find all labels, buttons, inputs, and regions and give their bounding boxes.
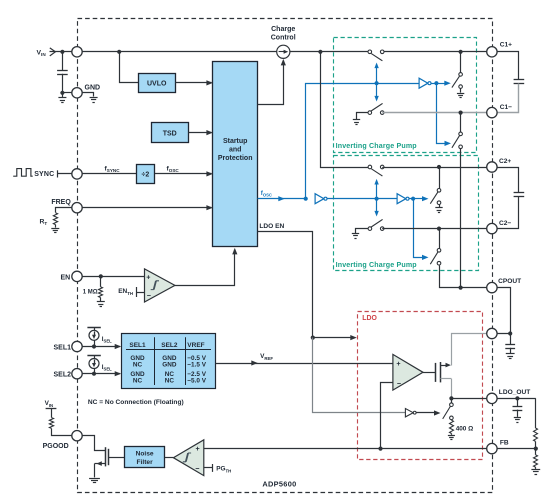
inverting charge pump 2 label [336, 261, 418, 269]
table rows [130, 355, 206, 385]
pin CPOUT [487, 282, 497, 292]
wire pump1 to driver blue [377, 83, 420, 85]
ground LDO_OUT cap [514, 410, 521, 423]
PGTH tick and stub [204, 464, 213, 472]
svg-text:Inverting Charge Pump: Inverting Charge Pump [336, 261, 418, 269]
charge control label [271, 26, 296, 42]
svg-text:C1−: C1− [500, 104, 512, 111]
svg-text:CPOUT: CPOUT [498, 278, 521, 285]
svg-text:C2+: C2+ [499, 158, 511, 165]
wire pump2 to driver2 blue [377, 198, 398, 200]
wire GND pin stub [62, 92, 77, 94]
svg-text:EN: EN [60, 274, 70, 281]
wire VREF to op-amp [216, 360, 393, 365]
ground pump1 C1+ switch [457, 88, 464, 97]
switch pump2 top [368, 165, 384, 176]
wire LDO EN [258, 232, 313, 338]
wire to UVLO [120, 52, 139, 83]
node SEL2 junction [92, 372, 96, 376]
block noise filter [125, 447, 165, 468]
capacitor CVIN [57, 71, 68, 75]
SEL2 label [53, 372, 71, 379]
svg-text:LDO EN: LDO EN [259, 223, 284, 230]
svg-text:SYNC: SYNC [34, 171, 54, 178]
ground below RT [51, 225, 59, 233]
pin GND [72, 88, 82, 98]
node fOSC junction blue [304, 197, 308, 201]
ground pump2 C2- switch [352, 229, 370, 239]
wire FREQ to startup [77, 205, 213, 210]
wire C1+ column upper [460, 52, 462, 73]
wire fOSC from startup blue [258, 196, 306, 201]
inverting charge pump 1 label [336, 142, 418, 150]
svg-text:C2−: C2− [499, 220, 511, 227]
wire feedback divider upper [535, 398, 537, 428]
node C2+ junction [437, 165, 441, 169]
switch LDO discharge [443, 403, 454, 420]
capacitor CPOUT [505, 334, 515, 349]
wire LDO EN to inverter gray [313, 338, 406, 413]
C1+ label [500, 41, 512, 48]
inverter LDO discharge control [405, 409, 416, 417]
switch pump1 bottom-left [368, 103, 384, 114]
node external FB junction [534, 447, 538, 451]
wire inverter to switch [416, 410, 440, 415]
switch pump1 C1- to cpout [452, 132, 463, 149]
wire pump1 lower drive blue [437, 84, 452, 146]
wire TSD to startup [188, 130, 213, 135]
wire to FB node [535, 441, 537, 448]
wire EN pin to comparator [77, 276, 145, 278]
wire C2- column [439, 229, 441, 249]
startup text [218, 138, 253, 162]
resistor feedback upper [534, 428, 538, 441]
wire C1 fly cap [492, 52, 519, 80]
wire C2+ rail [382, 167, 492, 169]
current source ISEL2 [87, 356, 100, 374]
pin EN [72, 271, 82, 281]
wire SEL1 to table [77, 344, 121, 349]
wire C2+ column [439, 167, 441, 189]
SYNC label [34, 171, 54, 178]
GND label [85, 85, 101, 92]
wire LDO EN into LDO box [313, 335, 357, 340]
wire noise filter to gate [109, 457, 124, 459]
wire GND pin to internal ground [78, 93, 94, 97]
svg-text:LDO: LDO [362, 315, 377, 322]
wire RT branch [56, 208, 72, 213]
ISEL1 label [102, 336, 112, 344]
VIN pullup bar [46, 408, 57, 418]
svg-text:+: + [196, 444, 200, 453]
block UVLO [139, 74, 176, 93]
wire pump2 lower drive blue [414, 199, 429, 261]
resistor feedback lower [534, 449, 538, 468]
ground pump1 C1- switch [353, 113, 370, 125]
capacitor LDO_OUT [513, 398, 523, 410]
svg-text:−: − [397, 379, 401, 388]
LDO dashed box [358, 312, 483, 460]
wire C2 fly cap lower [492, 197, 519, 229]
wire switch stub [451, 398, 453, 403]
inverter driver pump2a blue [315, 194, 327, 204]
svg-text:NC = No Connection (Floating): NC = No Connection (Floating) [88, 399, 184, 406]
resistor 400ohm [450, 420, 454, 434]
wire pump2 drive blue [327, 198, 377, 200]
pin FREQ [72, 203, 82, 213]
VREF select table box [122, 334, 216, 389]
node VIN-cap junction [60, 50, 64, 54]
svg-text:Startup: Startup [223, 138, 248, 145]
ground at GND pin [90, 98, 98, 103]
ENTH tick and stub [136, 287, 145, 297]
wire FET source to ground [94, 464, 96, 478]
wire cap branch upper [62, 52, 64, 71]
inverter driver pump1 blue [419, 78, 431, 88]
wire VIN riser to pump2 [321, 52, 370, 168]
svg-text:+: + [396, 359, 400, 368]
wire pump2 to CPOUT rail [440, 266, 492, 288]
current source ISEL1 [87, 327, 100, 346]
node UVLO branch junction [117, 50, 121, 54]
PGTH label [216, 466, 231, 474]
wire startup to charge control [258, 59, 286, 105]
resistor 1Mohm [99, 276, 103, 297]
block TSD [152, 123, 189, 143]
switch pump2 C2- to cpout [430, 249, 441, 266]
svg-text:LDO_OUT: LDO_OUT [499, 389, 531, 396]
wire C2 fly cap [492, 168, 519, 193]
wire FB rail [204, 448, 492, 450]
pump2 phase double arrow blue [374, 179, 378, 217]
comparator PGOOD (hysteresis) [173, 440, 203, 476]
noise filter text [136, 451, 154, 467]
node EN divider junction [99, 274, 103, 278]
block startup and protection [213, 62, 258, 247]
switch pump1 C1+ to gnd [452, 73, 463, 89]
C2- label [499, 220, 511, 227]
block divide-by-2 [137, 165, 155, 184]
charge control circle [277, 45, 290, 58]
wire SEL2 to table [77, 371, 121, 376]
svg-text:VREF: VREF [187, 342, 204, 349]
VIN pullup label [45, 400, 54, 408]
table header row [129, 342, 204, 349]
inverter driver pump2b blue [397, 194, 409, 204]
node C2- junction [437, 227, 441, 231]
ground below 400ohm [448, 434, 455, 440]
ADP5600 part label [262, 479, 296, 488]
svg-text:SEL1: SEL1 [129, 342, 146, 349]
svg-text:Protection: Protection [218, 155, 253, 162]
wire SYNC pin to div2 [77, 173, 136, 175]
svg-text:Filter: Filter [137, 459, 154, 466]
LDO_OUT label [499, 389, 531, 396]
svg-text:−: − [195, 464, 199, 473]
node pump2 driver junction blue [411, 197, 415, 201]
wire C1 fly cap lower [492, 84, 519, 113]
node LDO_OUT junction [449, 396, 453, 400]
wire cap branch lower [62, 74, 64, 93]
pump1 phase double arrow blue [374, 63, 378, 102]
node CPOUT junction [459, 286, 463, 290]
ground PGOOD FET [89, 479, 100, 483]
wire op-amp output to gate [423, 372, 436, 374]
switch pump1 top [368, 50, 384, 61]
pin LDO_OUT [487, 393, 497, 403]
ISEL2 label [102, 364, 112, 372]
svg-text:TSD: TSD [163, 130, 177, 137]
svg-text:ADP5600: ADP5600 [262, 479, 296, 488]
pin LDO input [487, 328, 497, 338]
pin SEL2 [72, 369, 82, 379]
svg-text:1 MΩ: 1 MΩ [83, 289, 98, 295]
comparator EN (hysteresis) [145, 269, 175, 302]
capacitor C2 [514, 193, 525, 197]
node FB junction [378, 447, 382, 451]
ground below 1Mohm [97, 298, 105, 307]
ENTH label [118, 288, 133, 296]
svg-text:UVLO: UVLO [147, 81, 167, 88]
capacitor C1 [514, 80, 525, 84]
wire comparator to noise filter [165, 457, 174, 459]
pin FB [487, 443, 497, 453]
wire LDO_OUT to pin [451, 398, 492, 400]
svg-text:400 Ω: 400 Ω [456, 425, 474, 432]
svg-text:NC: NC [133, 362, 143, 369]
PGOOD label [43, 443, 69, 450]
wire LDO_OUT external [492, 398, 536, 400]
transistor PGOOD pulldown FET [95, 447, 109, 466]
NC note label [88, 399, 184, 406]
node pump1 driver junction blue [434, 81, 438, 85]
node C1+ junction [459, 50, 463, 54]
wire pullup to PGOOD pin [52, 429, 78, 436]
resistor RT [53, 213, 57, 225]
fOSC label black [167, 166, 180, 174]
svg-text:PGOOD: PGOOD [43, 443, 69, 450]
wire C1- rail gray [382, 112, 492, 114]
ground feedback divider [531, 467, 540, 474]
wire C2- rail [382, 228, 492, 230]
IC boundary dashed border (ADP5600) [78, 19, 493, 493]
SYNC input tick [57, 170, 59, 177]
op-amp LDO error amplifier [393, 354, 423, 390]
svg-text:−: − [147, 291, 151, 300]
inverting charge pump 1 dashed box [334, 38, 477, 153]
node LDO EN junction [311, 336, 315, 340]
switch pump2 bottom-left [368, 219, 384, 230]
ground CPOUT cap [506, 348, 515, 359]
SEL1 label [53, 344, 71, 351]
svg-text:−5.0 V: −5.0 V [187, 377, 206, 384]
VIN input chevron [50, 48, 56, 56]
wire VIN rail [50, 51, 492, 53]
wire PGOOD pin to FET drain [78, 436, 106, 451]
pin C2- [487, 223, 497, 233]
svg-text:Inverting Charge Pump: Inverting Charge Pump [336, 142, 418, 150]
400ohm label [456, 425, 474, 432]
pin SEL1 [72, 341, 82, 351]
wire pump1 to CPOUT rail [460, 149, 462, 288]
wire fOSC riser to pump1 blue [306, 84, 377, 199]
svg-text:NC: NC [165, 377, 175, 384]
svg-text:NC: NC [133, 377, 143, 384]
svg-text:SEL1: SEL1 [53, 344, 71, 351]
wire CPOUT to LDO input [492, 288, 511, 334]
LDO label [362, 315, 377, 322]
fOSC blue label [261, 190, 272, 198]
svg-text:SEL2: SEL2 [161, 342, 178, 349]
C1- label [500, 104, 512, 111]
wire pump2 driver out blue [409, 196, 429, 201]
div2 text [142, 172, 150, 179]
ground pump2 C2+ switch [435, 205, 442, 213]
wire FET drain to LDO input pin gray [452, 334, 492, 366]
RT label [40, 218, 48, 226]
wire FB feedback [381, 383, 393, 449]
wire C1- column [460, 113, 462, 133]
LDO EN label [259, 223, 284, 230]
pin PGOOD [72, 431, 82, 441]
wire FET source to LDO_OUT gray [451, 379, 453, 399]
node C1- junction [459, 111, 463, 115]
resistor PGOOD pullup [49, 418, 53, 429]
svg-text:Control: Control [271, 35, 296, 42]
VIN input label [37, 49, 47, 57]
node CPOUT cap junction [508, 331, 512, 335]
svg-text:+: + [146, 273, 150, 282]
EN label [60, 274, 70, 281]
wire UVLO to startup [175, 80, 213, 85]
SYNC square wave glyph [13, 169, 33, 177]
svg-text:Noise: Noise [136, 451, 154, 458]
node LDO_OUT cap junction [515, 396, 519, 400]
svg-text:÷2: ÷2 [142, 172, 150, 179]
FB label [500, 440, 509, 447]
VREF label [260, 353, 273, 361]
wire pump1 driver out blue [431, 81, 451, 86]
CPOUT label [498, 278, 521, 285]
node SEL1 junction [92, 344, 96, 348]
svg-text:and: and [229, 147, 241, 154]
svg-text:FREQ: FREQ [51, 199, 71, 206]
transistor LDO pass FET [436, 362, 452, 382]
wire EN comparator output to startup [175, 248, 238, 286]
wire div2 to startup [155, 171, 213, 176]
pin C2+ [487, 162, 497, 172]
FREQ label [51, 199, 71, 206]
wire FB pin external [492, 448, 536, 450]
svg-text:GND: GND [85, 85, 101, 92]
pin SYNC [72, 169, 82, 179]
C2+ label [499, 158, 511, 165]
pin C1+ [487, 47, 497, 57]
switch pump2 C2+ to gnd [430, 189, 441, 205]
node VIN rail pump branch [318, 50, 322, 54]
node cap-GND junction [60, 91, 64, 95]
fSYNC label [105, 166, 121, 174]
svg-text:−1.5 V: −1.5 V [187, 362, 206, 369]
svg-text:C1+: C1+ [500, 41, 512, 48]
1Mohm label [83, 289, 98, 295]
inverting charge pump 2 dashed box [334, 156, 479, 271]
pin VIN [72, 47, 82, 57]
ground below VIN cap [58, 93, 66, 103]
svg-text:FB: FB [500, 440, 509, 447]
UVLO text [147, 81, 167, 88]
wire SYNC tick to pin [57, 173, 77, 175]
pin C1- [487, 107, 497, 117]
svg-text:Charge: Charge [271, 26, 295, 33]
TSD text [163, 130, 177, 137]
svg-text:SEL2: SEL2 [53, 372, 71, 379]
svg-text:GND: GND [162, 362, 177, 369]
